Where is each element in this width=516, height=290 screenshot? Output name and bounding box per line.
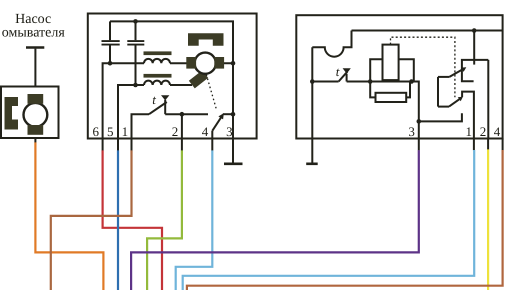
thermal switch blade (149, 102, 167, 114)
thermal switch arrow (161, 95, 169, 100)
svg-text:3: 3 (226, 124, 233, 139)
wire thermal switch to parking contact (165, 113, 208, 115)
wire orange pump feed (35, 142, 103, 290)
parking switch blade arrow (218, 113, 223, 119)
wire light blue terminal 4 (176, 150, 213, 290)
relay upper blade (449, 69, 463, 77)
choke L1 winding (144, 59, 170, 63)
choke L2 winding (144, 81, 170, 85)
wire L2 to third brush (170, 84, 192, 86)
node junction top bus / upper contact (472, 28, 477, 33)
wire box2 top bus (352, 30, 503, 32)
wire blue terminal 5 (117, 150, 119, 290)
wire terminal 3 vertical (232, 63, 234, 138)
motor brush left (186, 57, 196, 69)
node junction terminal 3 / alternate contact (417, 119, 422, 124)
wire stub terminal 6 (102, 139, 104, 151)
node junction top bus / C2 (133, 19, 138, 24)
wire brown terminal 1 (51, 150, 132, 290)
wire capacitor C1 top lead (109, 21, 111, 40)
thermal switch 2 arrow (343, 68, 351, 73)
wire stub relay terminal 4 (502, 139, 504, 151)
wire choke L1 input (110, 62, 144, 64)
wire terminal 2 drop (181, 114, 183, 138)
wire capacitor C2 top lead (135, 21, 137, 40)
wire capacitor C1 bottom lead (109, 46, 111, 64)
wire stub terminal 2 (181, 139, 183, 151)
node junction parking / terminal 3 bus (231, 112, 236, 117)
wire terminal 1 riser (132, 114, 150, 138)
wire relay coil right lead (399, 59, 414, 81)
relay coil K1 (383, 45, 399, 81)
wire stub relay terminal 2 (487, 139, 489, 150)
wire stub relay terminal 3 (418, 139, 420, 151)
wire parking switch pivot (211, 131, 213, 139)
pump brush bottom (28, 125, 44, 135)
node junction terminal 2 (180, 112, 185, 117)
wire stub terminal 4 (211, 139, 213, 151)
wire resistor left lead (370, 82, 375, 98)
svg-text:4: 4 (494, 124, 501, 139)
svg-text:5: 5 (107, 124, 114, 139)
wire box2 left vertical (311, 47, 313, 138)
ground bar box2 (306, 163, 318, 166)
pump brush top (28, 94, 44, 104)
wire box1 inner top bus (110, 21, 233, 63)
wire lower fixed contact to terminal 1 (462, 92, 474, 139)
wire lower alternate contact (419, 113, 462, 121)
svg-text:6: 6 (92, 124, 99, 139)
resistor R1 (376, 93, 407, 102)
wire terminal 6 riser (103, 63, 110, 138)
wire box2 ground lead (311, 139, 313, 164)
wire lower blade arm (438, 106, 449, 108)
wire relay coil left lead (370, 59, 382, 81)
svg-text:t: t (336, 64, 340, 79)
svg-text:3: 3 (408, 124, 415, 139)
svg-text:2: 2 (172, 124, 179, 139)
wire brown relay terminal 4 (187, 150, 503, 290)
parking switch blade (212, 115, 223, 131)
node junction C2 / choke L2 (133, 83, 138, 88)
pump magnet bracket (5, 97, 19, 130)
wire choke L2 input (136, 84, 145, 86)
relay lower blade arrow (458, 97, 463, 102)
svg-text:4: 4 (202, 124, 209, 139)
svg-text:омывателя: омывателя (2, 25, 66, 40)
mechanical link dotted (206, 75, 216, 111)
motor stator magnet (188, 33, 224, 46)
wire red terminal 6 (103, 150, 162, 290)
svg-text:1: 1 (122, 124, 129, 139)
pump motor rotor circle (24, 103, 48, 127)
thermal switch 2 blade (339, 72, 348, 82)
dashed actuator link (391, 37, 455, 97)
node junction left vertical (310, 79, 315, 84)
choke L2 core bar (144, 74, 172, 78)
wire motor armature bus (170, 62, 233, 64)
wire light blue relay terminal 1 (183, 150, 475, 290)
wire upper alternate contact bracket (462, 60, 488, 81)
wire stub terminal 5 (117, 139, 119, 151)
colored harness wires (35, 142, 502, 290)
relay armature common (437, 77, 439, 107)
pin labels box1 (92, 124, 232, 139)
motor third brush (angled) (189, 70, 208, 88)
thermal switch contact post (164, 100, 166, 114)
wire pump bottom stub (34, 138, 36, 142)
wire terminal 5 riser (118, 85, 136, 139)
relay upper blade arrow (461, 67, 466, 72)
pump top terminal T-bar (26, 46, 44, 48)
thermal switch 2 contact post (346, 74, 348, 82)
node junction coil right (409, 79, 414, 84)
wire stub terminal 1 (131, 139, 133, 151)
pin labels box2 (408, 124, 500, 139)
wire terminal 3 ground lead (232, 139, 234, 164)
wire resistor right lead (406, 82, 410, 98)
wire pump top lead (34, 49, 36, 87)
capacitor C2 (127, 41, 144, 45)
wire terminal 2 vertical (relay) (487, 60, 489, 139)
wire parking switch to terminal 3 bus (223, 113, 233, 115)
wire yellow relay terminal 2 (487, 149, 489, 290)
relay lower blade (449, 99, 460, 107)
wire pump internal vertical (34, 95, 36, 130)
capacitor C1 (102, 41, 120, 45)
wiper motor box (88, 14, 257, 139)
washer pump box (1, 87, 59, 139)
node junction coil left (368, 79, 373, 84)
relay box (296, 15, 502, 138)
wire capacitor C2 bottom lead (135, 46, 137, 86)
wire bump link (312, 31, 351, 57)
node junction armature / terminal 3 bus (231, 61, 236, 66)
wire purple relay terminal 3 (131, 150, 419, 290)
wire upper blade arm (438, 76, 449, 78)
motor M1 rotor (195, 53, 216, 74)
wire stub relay terminal 1 (473, 139, 475, 151)
wire to thermal switch 2 (312, 81, 338, 83)
ground bar box1 (224, 163, 243, 166)
svg-text:t: t (152, 92, 156, 107)
motor brush right (214, 57, 224, 69)
node junction C1 / choke L1 (108, 61, 113, 66)
svg-text:2: 2 (480, 124, 487, 139)
wire main bus box2 (347, 82, 419, 139)
svg-text:1: 1 (465, 124, 472, 139)
wire upper fixed contact stub (473, 31, 475, 65)
wire green terminal 2 (147, 150, 182, 290)
choke L1 core bar (144, 51, 172, 55)
label "Насос омывателя" (2, 12, 66, 40)
